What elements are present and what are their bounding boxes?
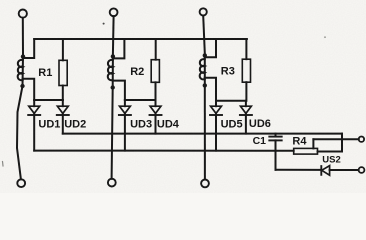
wire phase B diode connector bbox=[125, 99, 156, 101]
diode VD6 bbox=[240, 101, 252, 134]
wire phase C top bbox=[203, 16, 205, 54]
terminal top phase A bbox=[19, 10, 27, 18]
wire upper bus drop at right bbox=[341, 134, 343, 152]
inductor L3 coil bbox=[200, 59, 205, 79]
terminal top phase C bbox=[200, 8, 207, 15]
terminal output upper right bbox=[359, 137, 364, 142]
diode VD3 bbox=[119, 100, 131, 151]
wire through coil A bbox=[22, 57, 25, 86]
wire coil A top stub to bus bbox=[23, 39, 34, 58]
wire R1 bottom bbox=[62, 86, 64, 101]
wire thyristor line left bbox=[276, 169, 321, 171]
wire through coil B bbox=[112, 56, 114, 87]
wire through coil C bbox=[204, 55, 206, 85]
wire phase B down to bottom terminal bbox=[112, 88, 113, 179]
wire output upper line bbox=[313, 138, 358, 140]
resistor R2 bbox=[151, 60, 159, 83]
wire lower dc bus bbox=[34, 150, 294, 152]
node C bottom junction bbox=[203, 83, 207, 87]
inductor L2 coil bbox=[108, 60, 113, 80]
wire R2 top bbox=[155, 39, 157, 60]
diode VD5 bbox=[210, 101, 222, 151]
resistor R1 bbox=[59, 60, 67, 85]
terminal bottom phase B bbox=[108, 179, 116, 187]
noise speck 3 bbox=[2, 162, 5, 167]
node B bottom junction bbox=[111, 85, 115, 89]
node C top junction bbox=[203, 53, 207, 57]
node B top junction bbox=[111, 54, 115, 58]
terminal bottom phase A bbox=[17, 179, 25, 187]
wire coil C top stub to bus bbox=[205, 39, 216, 57]
diode VD1 bbox=[28, 100, 40, 151]
wire R3 bottom bbox=[245, 82, 247, 101]
thyristor VS2 bbox=[321, 166, 329, 176]
diode VD4 bbox=[150, 100, 162, 134]
wire R4 loop bottom bbox=[318, 151, 343, 153]
resistor R3 bbox=[242, 59, 250, 82]
wire coil C bottom stub bbox=[205, 78, 216, 101]
terminal top phase B bbox=[110, 8, 118, 16]
wire phase B top bbox=[112, 16, 115, 54]
wire phase A down to bottom terminal bbox=[17, 86, 23, 179]
noise speck 1 bbox=[103, 23, 105, 25]
wire C1 junction down to thyristor line bbox=[275, 151, 277, 170]
wire top bus bbox=[34, 38, 247, 40]
node A bottom junction bbox=[20, 84, 24, 88]
terminal bottom phase C bbox=[201, 180, 209, 188]
capacitor C1 bbox=[269, 134, 281, 151]
wire R2 bottom bbox=[155, 82, 157, 100]
inductor L1 coil bbox=[18, 60, 23, 80]
resistor R4 bbox=[294, 148, 318, 154]
wire phase A diode connector bbox=[34, 99, 63, 101]
wire phase A top bbox=[22, 18, 24, 55]
node A top junction bbox=[21, 54, 25, 58]
wire upper dc bus bbox=[63, 133, 342, 135]
wire R4 right riser bbox=[312, 139, 314, 148]
wire coil A bottom stub bbox=[23, 79, 35, 100]
wire phase C diode connector bbox=[216, 100, 246, 102]
wire R1 top bbox=[62, 39, 64, 60]
wire thyristor line right bbox=[330, 169, 359, 171]
wire coil B top stub to bus bbox=[113, 39, 125, 58]
diode VD2 bbox=[57, 100, 69, 134]
wire phase C down to bottom terminal bbox=[204, 85, 206, 179]
noise speck 2 bbox=[324, 36, 326, 38]
wire coil B bottom stub bbox=[113, 81, 125, 100]
wire R3 top bbox=[245, 39, 247, 59]
terminal output lower right bbox=[359, 167, 365, 173]
